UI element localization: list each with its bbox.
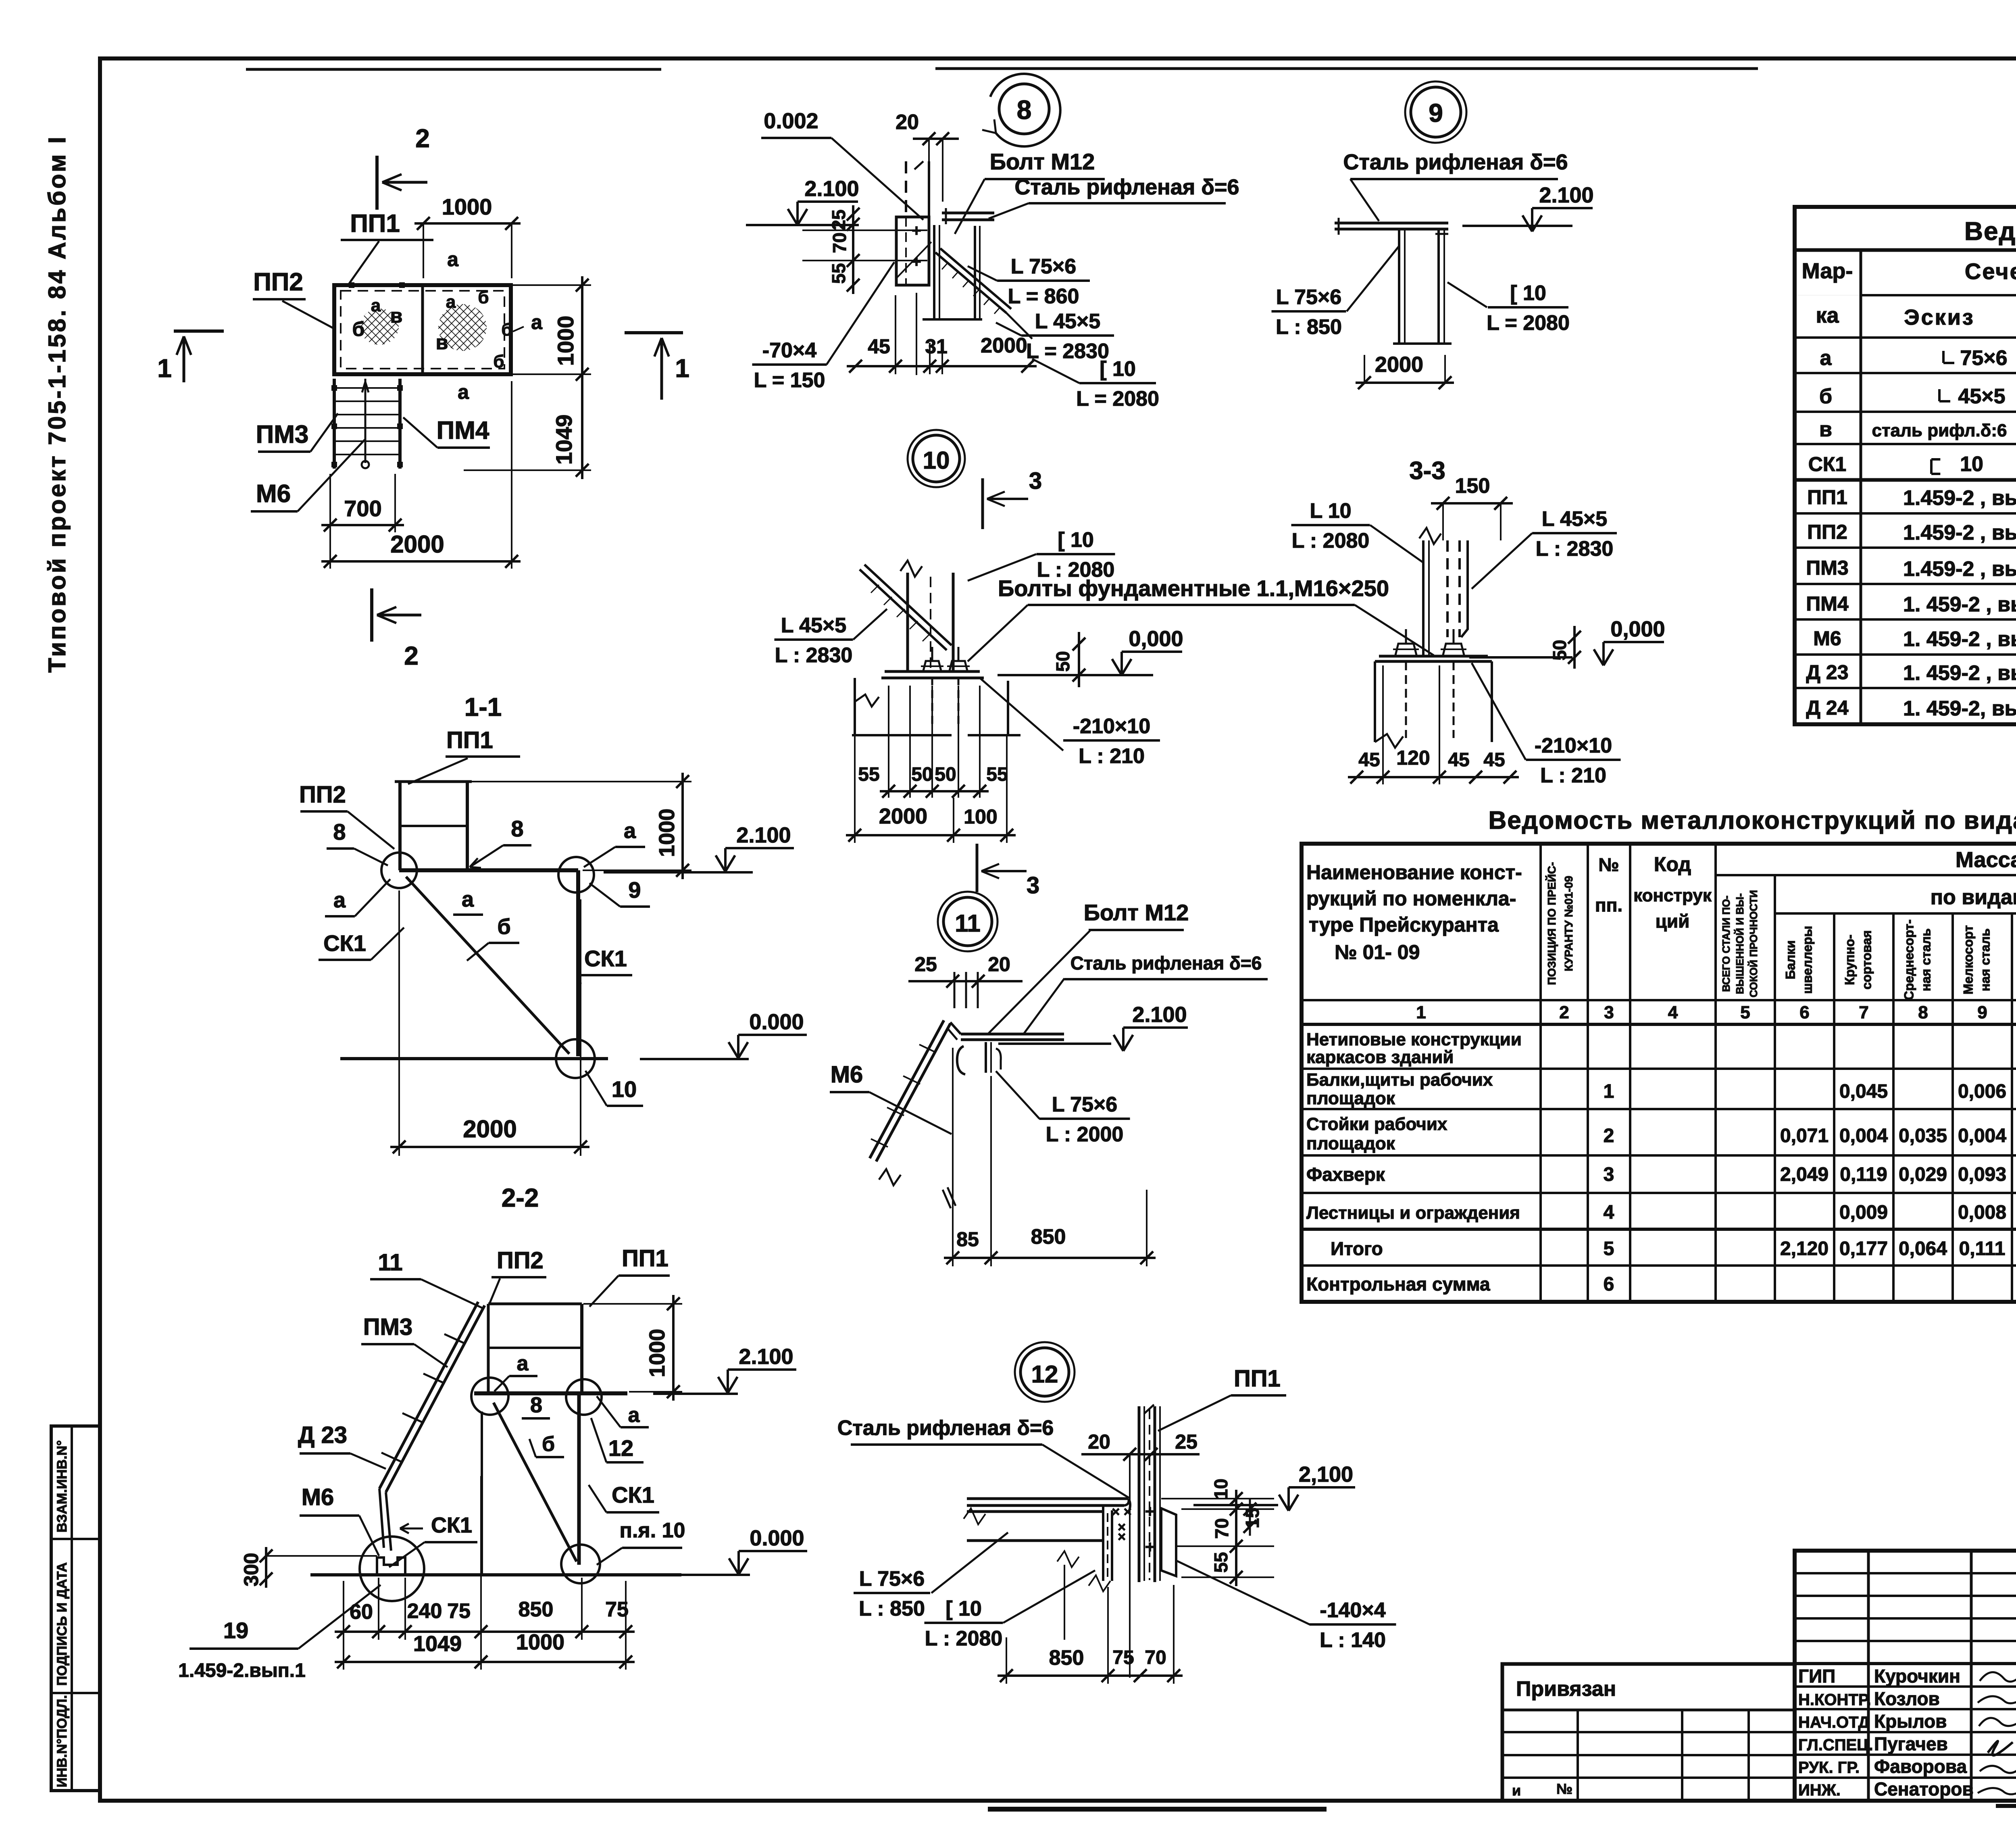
svg-text:1049: 1049 (413, 1632, 462, 1656)
svg-text:75×6: 75×6 (1960, 346, 2007, 370)
svg-text:швеллеры: швеллеры (1800, 926, 1815, 994)
svg-text:ИНЖ.: ИНЖ. (1798, 1781, 1841, 1799)
svg-text:СК1: СК1 (584, 946, 627, 971)
svg-text:пп.: пп. (1595, 894, 1622, 915)
1-1 diagonal brace (406, 877, 569, 1054)
svg-text:Сечение: Сечение (1965, 259, 2016, 284)
detail 10 column (906, 573, 909, 671)
svg-text:Балки: Балки (1783, 940, 1798, 980)
svg-text:0,119: 0,119 (1840, 1164, 1887, 1185)
svg-text:ПМ3: ПМ3 (1806, 557, 1848, 579)
3-3 dim 150 top (1431, 502, 1513, 505)
svg-text:в: в (436, 331, 448, 354)
svg-text:3: 3 (1029, 468, 1042, 494)
3-3 dims 45 120 45 45 (1348, 776, 1519, 778)
1-1 joint circles (381, 853, 417, 888)
svg-text:-210×10: -210×10 (1535, 734, 1612, 757)
svg-text:9: 9 (628, 877, 641, 903)
svg-text:б: б (497, 915, 510, 939)
svg-text:850: 850 (1049, 1646, 1084, 1670)
detail 10 section mark 3 top (981, 478, 984, 529)
svg-text:ПП2: ПП2 (497, 1247, 544, 1274)
1-1 dimension 1000 right (681, 773, 684, 879)
svg-text:2.100: 2.100 (736, 823, 791, 847)
svg-text:ПП2: ПП2 (253, 268, 303, 296)
svg-text:700: 700 (344, 496, 381, 521)
svg-text:1000: 1000 (516, 1630, 564, 1654)
plan dimension 2000 bottom (321, 560, 521, 563)
svg-text:20: 20 (896, 111, 919, 134)
detail 11 bubble (943, 897, 992, 946)
svg-text:и: и (1512, 1782, 1521, 1799)
svg-text:60: 60 (350, 1600, 373, 1624)
1-1 dimension 2000 bottom (398, 890, 400, 1156)
svg-text:СОКОЙ ПРОЧНОСТИ: СОКОЙ ПРОЧНОСТИ (1747, 890, 1760, 997)
svg-text:9: 9 (1429, 98, 1443, 127)
svg-text:1: 1 (1604, 1081, 1614, 1102)
detail 12 floor plate (967, 1497, 1129, 1500)
plan hatched grating area 2 (438, 304, 487, 351)
section mark 1 right (625, 331, 683, 334)
svg-text:8: 8 (511, 816, 523, 841)
svg-text:12: 12 (608, 1435, 633, 1461)
section mark 2 bottom (370, 588, 373, 642)
svg-text:Сталь рифленая δ=6: Сталь рифленая δ=6 (837, 1416, 1054, 1440)
svg-text:Мелкосорт: Мелкосорт (1961, 925, 1976, 995)
plan dimension 700 bottom (321, 524, 404, 526)
svg-text:70: 70 (1211, 1518, 1232, 1539)
svg-text:8: 8 (333, 819, 346, 844)
svg-text:ПОДПИСЬ И ДАТА: ПОДПИСЬ И ДАТА (54, 1562, 70, 1686)
svg-text:Сталь рифленая δ=6: Сталь рифленая δ=6 (1014, 175, 1239, 199)
svg-text:Болт М12: Болт М12 (1084, 900, 1189, 925)
plan dimension 1000 top (414, 222, 521, 225)
title block Привязан box (1502, 1664, 1795, 1801)
2-2 ground line (310, 1573, 681, 1576)
svg-text:12: 12 (1031, 1361, 1058, 1388)
svg-text:Лестницы и ограждения: Лестницы и ограждения (1306, 1203, 1520, 1223)
svg-text:б: б (1819, 385, 1832, 408)
svg-text:0.002: 0.002 (764, 109, 818, 133)
svg-text:б: б (493, 352, 504, 371)
svg-text:+: + (1145, 1537, 1155, 1556)
svg-text:10: 10 (1960, 452, 1983, 476)
svg-text:75: 75 (1112, 1647, 1134, 1668)
svg-text:L 75×6: L 75×6 (1052, 1093, 1117, 1116)
svg-text:2: 2 (1604, 1125, 1614, 1147)
svg-text:11: 11 (955, 910, 980, 937)
3-3 base plate (1379, 655, 1488, 658)
svg-text:50: 50 (911, 764, 933, 785)
svg-text:5: 5 (1604, 1238, 1614, 1259)
svg-text:31: 31 (925, 335, 948, 358)
svg-text:Болты фундаментные 1.1,М16×250: Болты фундаментные 1.1,М16×250 (998, 575, 1389, 601)
svg-text:б: б (478, 288, 489, 307)
svg-text:3: 3 (1604, 1164, 1614, 1185)
svg-text:СК1: СК1 (323, 930, 366, 956)
svg-text:2.100: 2.100 (804, 177, 859, 201)
2-2 joint circles (471, 1378, 508, 1415)
svg-text:2000: 2000 (390, 531, 444, 558)
svg-text:0,045: 0,045 (1839, 1081, 1888, 1102)
svg-text:6: 6 (1604, 1274, 1614, 1295)
svg-text:L 75×6: L 75×6 (1011, 255, 1076, 278)
svg-text:туре Прейскуранта: туре Прейскуранта (1309, 913, 1499, 936)
svg-text:L : 2830: L : 2830 (775, 644, 853, 667)
svg-text:[ 10: [ 10 (1510, 281, 1546, 305)
svg-text:б: б (501, 320, 512, 340)
svg-text:2,120: 2,120 (1780, 1238, 1829, 1259)
detail 8 diagonal brace (935, 252, 1006, 313)
svg-text:ПП1: ПП1 (350, 210, 400, 238)
1-1 platform beam (399, 868, 578, 872)
svg-text:б: б (542, 1432, 555, 1456)
plan view platform outline (334, 285, 511, 374)
plan stairs (333, 379, 336, 469)
svg-text:1.459-2 , вып 2, лист 75: 1.459-2 , вып 2, лист 75 (1903, 486, 2016, 510)
svg-text:50: 50 (935, 764, 956, 785)
svg-text:ГЛ.СПЕЦ.: ГЛ.СПЕЦ. (1798, 1736, 1873, 1754)
svg-text:1. 459-2 , вып. 2, лист 19: 1. 459-2 , вып. 2, лист 19 (1903, 628, 2016, 651)
svg-text:1: 1 (675, 354, 689, 383)
plan handrail posts (331, 385, 337, 391)
svg-text:70: 70 (829, 232, 850, 253)
svg-text:0,071: 0,071 (1780, 1125, 1829, 1147)
detail 8 floor plate (942, 212, 994, 215)
detail 8 dims left 25/70/55 (852, 205, 854, 294)
svg-text:а: а (624, 819, 636, 843)
svg-text:L 10: L 10 (1310, 499, 1351, 523)
svg-text:70: 70 (1145, 1647, 1166, 1668)
svg-text:0.000: 0.000 (749, 1010, 804, 1034)
svg-text:в: в (1819, 418, 1832, 441)
svg-text:а: а (531, 311, 543, 334)
svg-text:Мар-: Мар- (1802, 259, 1853, 283)
svg-text:L : 2080: L : 2080 (925, 1627, 1003, 1650)
svg-text:+: + (1145, 1502, 1155, 1521)
1-1 railing frame (395, 780, 472, 783)
svg-text:2.100: 2.100 (1132, 1003, 1187, 1027)
svg-text:а: а (447, 248, 459, 271)
table2 header Масса конструкций (1716, 874, 2016, 876)
svg-text:25: 25 (1175, 1430, 1198, 1453)
svg-text:ций: ций (1656, 911, 1690, 932)
svg-text:0,008: 0,008 (1958, 1202, 2006, 1223)
svg-text:1000: 1000 (553, 316, 578, 366)
svg-text:45: 45 (868, 335, 890, 358)
svg-text:2.100: 2.100 (1539, 183, 1593, 207)
svg-text:L : 2830: L : 2830 (1536, 537, 1614, 561)
svg-text:№ 01- 09: № 01- 09 (1335, 941, 1420, 963)
3-3 anchor bolts (1395, 644, 1416, 655)
svg-text:4: 4 (1604, 1202, 1614, 1223)
svg-text:8: 8 (1918, 1003, 1928, 1022)
svg-text:1-1: 1-1 (464, 692, 502, 721)
svg-text:2-2: 2-2 (502, 1183, 539, 1212)
svg-text:8: 8 (530, 1393, 542, 1417)
svg-text:ПОЗИЦИЯ ПО ПРЕЙС-: ПОЗИЦИЯ ПО ПРЕЙС- (1545, 862, 1558, 985)
detail 8 post below plate (916, 293, 917, 375)
svg-text:ВЫШЕННОЙ И ВЫ-: ВЫШЕННОЙ И ВЫ- (1734, 893, 1746, 994)
svg-text:4: 4 (1668, 1003, 1678, 1022)
svg-text:Типовой проект 705-1-158.: Типовой проект 705-1-158. 84 Альбом I (44, 135, 71, 673)
detail 11 angle clamp (957, 1046, 965, 1074)
svg-text:СК1: СК1 (612, 1482, 654, 1507)
svg-text:в: в (390, 304, 403, 327)
detail 9 column (1398, 229, 1400, 344)
svg-text:L : 140: L : 140 (1320, 1628, 1386, 1652)
svg-text:0,000: 0,000 (1610, 617, 1665, 641)
3-3 column (1422, 540, 1425, 656)
svg-text:ПМ4: ПМ4 (437, 417, 489, 444)
detail 12 column (1138, 1406, 1141, 1582)
svg-text:7: 7 (1859, 1003, 1868, 1022)
svg-text:ная сталь: ная сталь (1978, 928, 1993, 991)
svg-text:0,004: 0,004 (1839, 1125, 1888, 1147)
detail 10 diagonal L45x5 (864, 565, 952, 645)
svg-text:№: № (1598, 854, 1619, 875)
svg-text:1: 1 (157, 354, 172, 383)
svg-text:100: 100 (964, 805, 997, 828)
svg-text:L 75×6: L 75×6 (859, 1567, 925, 1591)
table Ведомость элементов frame (1795, 207, 2016, 724)
svg-text:45×5: 45×5 (1958, 385, 2005, 408)
detail 9 bubble (1411, 87, 1461, 137)
svg-text:45: 45 (1483, 749, 1505, 771)
svg-text:2000: 2000 (879, 804, 927, 828)
svg-text:Балки,щиты рабочих: Балки,щиты рабочих (1306, 1070, 1493, 1090)
detail 8 plate -70x4 (896, 217, 929, 285)
svg-text:85: 85 (956, 1228, 979, 1251)
svg-text:1. 459-2, вып.1, лист 81: 1. 459-2, вып.1, лист 81 (1903, 697, 2016, 720)
svg-text:Нетиповые конструкции: Нетиповые конструкции (1306, 1030, 1522, 1049)
section mark 1 left (174, 329, 224, 333)
section mark 2 top (375, 156, 379, 210)
svg-text:L = 150: L = 150 (754, 369, 825, 392)
svg-text:L : 210: L : 210 (1540, 764, 1606, 787)
svg-text:10: 10 (612, 1076, 637, 1102)
svg-text:20: 20 (988, 953, 1010, 976)
svg-text:Д 24: Д 24 (1806, 696, 1848, 719)
svg-text:25: 25 (914, 953, 937, 976)
svg-text:50: 50 (1549, 640, 1570, 660)
svg-text:Ведомость элементов: Ведомость элементов (1964, 217, 2016, 246)
detail 8 dims bottom (847, 365, 1037, 367)
2-2 М6 base (377, 1558, 405, 1575)
detail 11 top plate (961, 1033, 1064, 1036)
svg-text:ПМ3: ПМ3 (256, 421, 309, 448)
detail 12 beam L75x6 (967, 1510, 1103, 1513)
svg-text:2: 2 (404, 641, 419, 670)
detail 12 channel C10 below (1102, 1510, 1104, 1581)
svg-text:а: а (333, 888, 346, 912)
svg-text:20: 20 (1088, 1430, 1110, 1453)
2-2 platform beam (474, 1391, 627, 1395)
svg-text:1.459-2.вып.1: 1.459-2.вып.1 (178, 1660, 306, 1681)
svg-text:1. 459-2 , вып. 2, лист 55: 1. 459-2 , вып. 2, лист 55 (1903, 593, 2016, 616)
svg-text:50: 50 (1052, 651, 1073, 671)
detail 10 foundation (854, 678, 856, 735)
svg-text:Фаворова: Фаворова (1874, 1756, 1967, 1777)
title block staff rows (1795, 1685, 2016, 1688)
svg-text:Контрольная сумма: Контрольная сумма (1306, 1274, 1490, 1295)
svg-text:1000: 1000 (442, 194, 492, 219)
svg-text:0,000: 0,000 (1129, 627, 1183, 651)
svg-text:2: 2 (415, 124, 430, 153)
svg-text:L 75×6: L 75×6 (1276, 286, 1341, 309)
svg-text:2000: 2000 (981, 334, 1027, 357)
2-2 left post СК1 (481, 1412, 483, 1575)
plan hatched grating area 1 (360, 309, 399, 345)
svg-text:L : 850: L : 850 (859, 1597, 925, 1620)
detail 8 angle frame (933, 225, 935, 319)
svg-text:L 45×5: L 45×5 (1542, 507, 1607, 531)
svg-text:ВСЕГО СТАЛИ ПО-: ВСЕГО СТАЛИ ПО- (1720, 896, 1732, 992)
2-2 railing frame (488, 1303, 582, 1305)
3-3 foundation (1374, 661, 1376, 742)
2-2 dimensions bottom row1 (335, 1630, 635, 1633)
svg-text:L = 2830: L = 2830 (1026, 340, 1109, 363)
svg-text:ная сталь: ная сталь (1919, 928, 1933, 991)
svg-text:Код: Код (1654, 853, 1691, 876)
detail 10 dim 50 (1078, 632, 1080, 687)
svg-text:1. 459-2 , вып.1, лист 81: 1. 459-2 , вып.1, лист 81 (1903, 661, 2016, 685)
svg-text:6: 6 (1799, 1003, 1809, 1022)
svg-text:сталь рифл.δ:6: сталь рифл.δ:6 (1872, 421, 2007, 440)
2-2 ladder ПМ3 (386, 1305, 485, 1492)
svg-text:Болт М12: Болт М12 (990, 149, 1095, 174)
detail 11 bolt ticks (954, 972, 956, 1008)
svg-text:М6: М6 (1813, 627, 1841, 650)
svg-text:1049: 1049 (551, 415, 577, 465)
svg-text:L 45×5: L 45×5 (781, 614, 846, 637)
2-2 diagonal brace (494, 1403, 577, 1562)
detail 8 bubble (999, 84, 1049, 134)
svg-text:ПП1: ПП1 (622, 1245, 669, 1272)
svg-text:2000: 2000 (1375, 352, 1423, 377)
svg-text:СК1: СК1 (1808, 453, 1846, 475)
svg-text:рукций по номенкла-: рукций по номенкла- (1306, 887, 1516, 910)
svg-text:Д 23: Д 23 (298, 1422, 347, 1448)
svg-text:а: а (371, 296, 381, 315)
svg-text:Ведомость металлоконструкций: Ведомость металлоконструкций по видам пр… (1488, 807, 2016, 834)
detail 10 dims 2000 100 (846, 834, 1016, 836)
svg-text:2,100: 2,100 (1299, 1462, 1353, 1487)
svg-text:0,064: 0,064 (1899, 1238, 1947, 1259)
svg-text:РУК. ГР.: РУК. ГР. (1798, 1759, 1860, 1776)
svg-text:М6: М6 (302, 1484, 334, 1510)
detail 9 dim 2000 (1356, 382, 1454, 384)
svg-text:[ 10: [ 10 (1058, 528, 1094, 552)
svg-text:ВЗАМ.ИНВ.N°: ВЗАМ.ИНВ.N° (54, 1440, 70, 1532)
svg-text:25: 25 (828, 209, 849, 230)
svg-text:0,004: 0,004 (1958, 1125, 2006, 1147)
svg-text:45: 45 (1448, 749, 1469, 771)
svg-text:ПМ4: ПМ4 (1806, 592, 1849, 615)
svg-text:15: 15 (1242, 1507, 1263, 1528)
svg-text:11: 11 (378, 1249, 402, 1276)
svg-text:Эскиз: Эскиз (1904, 305, 1975, 329)
svg-text:ПП1: ПП1 (1807, 486, 1847, 509)
svg-text:120: 120 (1396, 746, 1430, 769)
svg-text:Масса конструкций,т: Масса конструкций,т (1956, 848, 2016, 872)
detail 9 top plate (1335, 222, 1448, 225)
svg-text:Крупно-: Крупно- (1843, 934, 1857, 985)
left margin stamp box (51, 1426, 100, 1791)
svg-text:10: 10 (923, 447, 950, 474)
2-2 dimension 300 left (265, 1547, 267, 1588)
svg-text:№: № (1556, 1781, 1572, 1797)
3-3 dim 50 (1573, 626, 1576, 669)
svg-text:L : 2080: L : 2080 (1292, 529, 1370, 553)
svg-text:п.я. 10: п.я. 10 (620, 1519, 685, 1542)
plan dimensions 1000 / 1049 right (581, 276, 583, 479)
svg-text:75: 75 (447, 1599, 471, 1623)
svg-text:а: а (1820, 346, 1832, 370)
svg-text:М6: М6 (256, 480, 291, 508)
svg-text:Пугачев: Пугачев (1874, 1733, 1948, 1754)
detail 11 ladder stringer (876, 1024, 950, 1161)
2-2 right column (577, 1395, 581, 1565)
3-3 angle flange (1461, 540, 1468, 637)
svg-text:Сталь рифленая δ=6: Сталь рифленая δ=6 (1070, 953, 1262, 974)
table2 frame (1302, 844, 2016, 1302)
svg-text:б: б (352, 318, 365, 340)
svg-text:1.459-2 , вып.2, лист 75: 1.459-2 , вып.2, лист 75 (1903, 521, 2016, 544)
svg-text:1.459-2 , вып. 2, лист 55: 1.459-2 , вып. 2, лист 55 (1903, 557, 2016, 581)
detail 12 dims bottom 850 75 70 (998, 1674, 1183, 1677)
svg-text:10: 10 (1210, 1478, 1231, 1499)
svg-text:× ×: × × (1112, 1504, 1131, 1520)
1-1 right column (576, 870, 580, 1056)
svg-text:М6: М6 (831, 1061, 863, 1088)
svg-text:3-3: 3-3 (1409, 457, 1445, 485)
svg-text:55: 55 (828, 263, 849, 284)
svg-text:а: а (628, 1403, 640, 1427)
svg-text:×: × (1118, 1529, 1126, 1545)
svg-text:-210×10: -210×10 (1073, 715, 1150, 738)
svg-text:Крылов: Крылов (1874, 1711, 1947, 1732)
title block main frame (1795, 1551, 2016, 1801)
svg-text:КУРАНТУ №01-09: КУРАНТУ №01-09 (1562, 876, 1575, 972)
svg-text:9: 9 (1977, 1003, 1987, 1022)
svg-text:3: 3 (1027, 872, 1039, 899)
svg-text:2000: 2000 (463, 1115, 516, 1143)
svg-text:L = 2080: L = 2080 (1487, 311, 1570, 335)
svg-text:55: 55 (858, 764, 879, 785)
svg-text:ка: ка (1816, 303, 1839, 327)
svg-text:0.000: 0.000 (750, 1526, 804, 1550)
svg-text:Сенаторов: Сенаторов (1874, 1779, 1974, 1799)
svg-text:300: 300 (240, 1553, 262, 1586)
svg-text:0,093: 0,093 (1958, 1164, 2006, 1185)
2-2 dimensions bottom row2 (335, 1661, 635, 1663)
svg-text:Козлов: Козлов (1874, 1688, 1940, 1709)
table2 header по видам профилей (1775, 912, 2016, 915)
svg-text:Стойки рабочих: Стойки рабочих (1306, 1114, 1447, 1134)
svg-text:СК1: СК1 (431, 1513, 472, 1537)
svg-text:2: 2 (1559, 1003, 1569, 1022)
svg-text:площадок: площадок (1306, 1134, 1395, 1153)
svg-text:45: 45 (1358, 749, 1380, 771)
detail 12 dims right 10 15 70 55 (1235, 1490, 1237, 1586)
svg-text:Курочкин: Курочкин (1874, 1666, 1960, 1687)
detail 10 bubble (913, 435, 960, 482)
svg-text:150: 150 (1455, 474, 1490, 498)
top border doubled segments (246, 68, 661, 71)
svg-text:ПП1: ПП1 (1234, 1366, 1281, 1392)
svg-text:каркасов зданий: каркасов зданий (1306, 1047, 1454, 1067)
